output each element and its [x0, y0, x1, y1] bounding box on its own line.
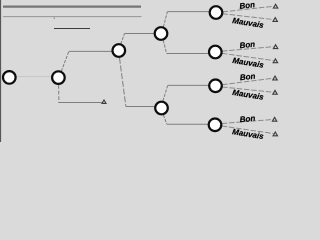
node C4 — [155, 27, 168, 40]
wire Mauvais 4 (dashed) — [222, 126, 274, 134]
wire C2 up horizontal to C3 — [69, 50, 112, 52]
node C2 — [52, 71, 65, 84]
triangle T2a — [273, 45, 277, 49]
svg-text:Bon: Bon — [239, 0, 256, 11]
wire C4 down horizontal to C6 — [167, 53, 210, 55]
triangle T1b — [273, 18, 277, 22]
triangle T4a — [272, 117, 276, 121]
wire C1-C2 (light) — [17, 76, 51, 78]
node C5 — [210, 6, 223, 19]
triangle T3a — [273, 76, 277, 80]
triangle T4b — [273, 132, 277, 136]
wire C7 up diagonal — [163, 85, 168, 101]
triangle end of C2 down branch — [102, 100, 106, 103]
node C8 — [209, 80, 222, 93]
wire Mauvais 3 (dashed) — [222, 87, 273, 92]
triangle T3b — [273, 90, 277, 94]
wire C3 down diagonal — [120, 58, 126, 107]
wire Bon 1 (dashed) — [223, 6, 274, 12]
wire C3 down horizontal to C7 — [126, 106, 154, 108]
tiny dot — [54, 18, 55, 19]
left window border — [0, 0, 2, 142]
triangle T2b — [273, 59, 277, 63]
svg-text:Bon: Bon — [239, 40, 256, 51]
wire Bon 4 (dashed) — [222, 120, 273, 124]
node C3 — [113, 44, 126, 57]
wire C2 down horizontal — [58, 102, 101, 104]
wire C3 up diagonal — [121, 33, 125, 44]
svg-text:Bon: Bon — [239, 114, 256, 125]
node C7 — [155, 102, 168, 115]
wire C4 up diagonal — [163, 12, 167, 27]
short dark underline — [54, 28, 90, 30]
top thick rule — [3, 5, 141, 7]
wire C2 down vertical — [58, 85, 60, 103]
triangle T1a — [273, 4, 277, 8]
wire Mauvais 2 (dashed) — [222, 53, 273, 60]
wire Mauvais 1 (dashed) — [222, 14, 273, 20]
wire C2 up diagonal — [61, 51, 69, 71]
node C1 (root) — [3, 71, 16, 84]
wire C7 down diagonal — [163, 115, 166, 124]
wire C4 up horizontal to C5 — [167, 11, 209, 13]
wire C7 up horizontal to C8 — [168, 84, 209, 86]
wire C7 down horizontal to C9 — [167, 123, 208, 125]
wire Bon 2 (dashed) — [222, 47, 274, 51]
node C6 — [209, 46, 222, 59]
top thin rule — [3, 16, 142, 18]
wire Bon 3 (dashed) — [222, 78, 273, 85]
svg-text:Bon: Bon — [239, 72, 256, 83]
node C9 — [209, 119, 222, 132]
wire C4 down diagonal — [163, 40, 166, 53]
wire C3 up horizontal to C4 — [125, 33, 154, 35]
